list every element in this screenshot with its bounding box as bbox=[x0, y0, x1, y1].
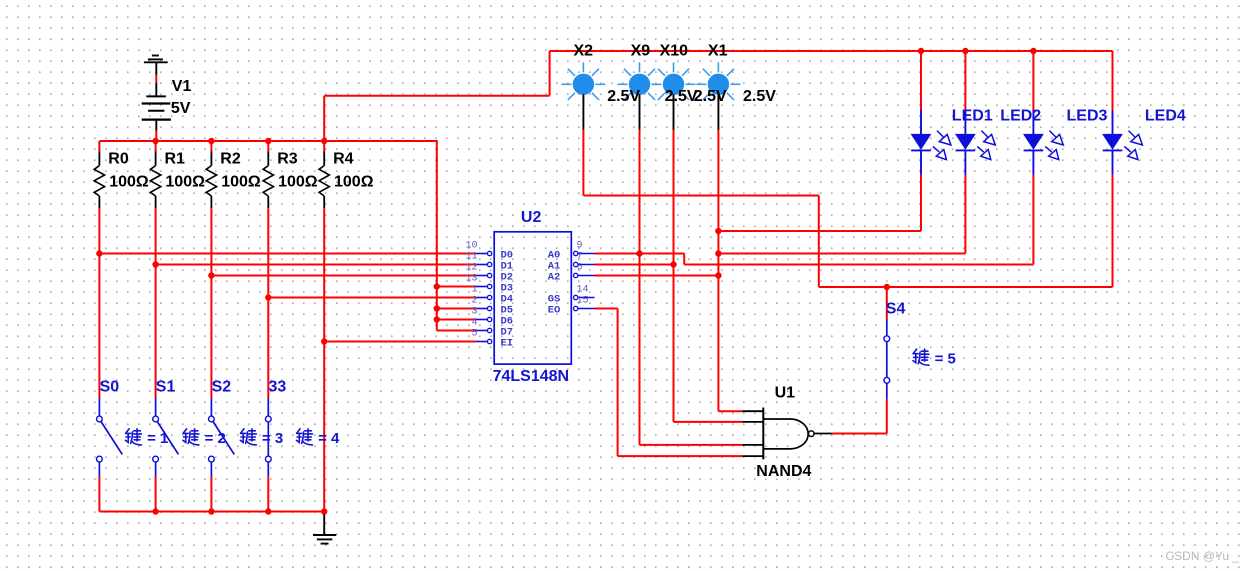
NAND gate U1 NAND4 bbox=[742, 408, 831, 460]
svg-text:NAND4: NAND4 bbox=[756, 463, 811, 480]
wire: A0 output row with jog to LED3 bbox=[595, 175, 1034, 265]
LED2 bbox=[955, 110, 995, 175]
resistor R3 100 ohm bbox=[263, 151, 318, 209]
resistor R2 100 ohm bbox=[206, 151, 261, 209]
resistor R0 100 ohm bbox=[94, 151, 149, 209]
svg-text:15: 15 bbox=[577, 295, 589, 306]
svg-text:X2: X2 bbox=[574, 43, 594, 60]
svg-text:= 5: = 5 bbox=[935, 350, 956, 367]
junction dots on top rail bbox=[918, 48, 1037, 54]
svg-text:A2: A2 bbox=[548, 271, 561, 283]
wire: lamp X1 down to NAND input 1 bbox=[718, 130, 742, 412]
svg-text:1: 1 bbox=[471, 284, 477, 295]
svg-text:R4: R4 bbox=[333, 151, 354, 168]
switch S2 bbox=[209, 398, 235, 477]
svg-text:100Ω: 100Ω bbox=[165, 173, 205, 190]
svg-text:14: 14 bbox=[577, 284, 589, 295]
svg-text:74LS148N: 74LS148N bbox=[493, 368, 569, 385]
junction dots on ground rail bbox=[152, 508, 327, 514]
svg-text:100Ω: 100Ω bbox=[334, 173, 374, 190]
svg-text:100Ω: 100Ω bbox=[109, 173, 149, 190]
switch S1 bbox=[153, 398, 179, 477]
junction dots on +5V rail bbox=[152, 138, 440, 323]
label key = 3 bbox=[240, 429, 283, 447]
svg-text:S0: S0 bbox=[100, 379, 120, 396]
wire: bottom ground rail bbox=[99, 511, 324, 513]
svg-text:S2: S2 bbox=[212, 379, 232, 396]
wire: X1 branch to LED2 bbox=[718, 175, 965, 254]
wire: lamp X2 to LED4 net with S4 tap bbox=[583, 130, 1112, 288]
svg-text:U1: U1 bbox=[775, 385, 796, 402]
svg-text:6: 6 bbox=[577, 262, 583, 273]
svg-text:13: 13 bbox=[465, 273, 477, 284]
svg-text:2: 2 bbox=[471, 295, 477, 306]
svg-text:100Ω: 100Ω bbox=[278, 173, 318, 190]
svg-text:11: 11 bbox=[465, 251, 477, 262]
junction dots on input rows bbox=[96, 250, 327, 344]
svg-text:R1: R1 bbox=[165, 151, 186, 168]
svg-text:LED3: LED3 bbox=[1067, 108, 1108, 125]
label key = 4 bbox=[296, 429, 340, 447]
svg-text:5V: 5V bbox=[171, 100, 191, 117]
wire: top rail to LED anodes bbox=[550, 51, 1113, 110]
svg-text:LED1: LED1 bbox=[952, 108, 993, 125]
svg-text:3: 3 bbox=[471, 306, 477, 317]
svg-text:X1: X1 bbox=[708, 43, 728, 60]
lamp X1 2.5V bbox=[696, 62, 740, 129]
wire: NAND output to S4 bbox=[832, 287, 887, 434]
svg-text:EO: EO bbox=[548, 304, 561, 316]
wire: A2 output row to X1 bbox=[595, 275, 719, 277]
svg-text:X10: X10 bbox=[660, 43, 689, 60]
chip right pins A0-A2, GS, EO bbox=[574, 251, 595, 310]
ground (bottom, at R4 column) bbox=[313, 514, 336, 544]
svg-text:= 2: = 2 bbox=[205, 430, 226, 447]
wire: lamp X9 down to NAND input 3 bbox=[640, 130, 743, 445]
svg-text:7: 7 bbox=[577, 251, 583, 262]
lamp X2 2.5V bbox=[561, 62, 605, 129]
LED1 bbox=[911, 110, 951, 175]
svg-text:V1: V1 bbox=[172, 78, 192, 95]
svg-text:LED2: LED2 bbox=[1000, 108, 1041, 125]
svg-text:= 4: = 4 bbox=[318, 430, 340, 447]
svg-text:2.5V: 2.5V bbox=[607, 88, 640, 105]
LED3 bbox=[1023, 110, 1063, 175]
svg-text:10: 10 bbox=[465, 240, 477, 251]
svg-text:2.5V: 2.5V bbox=[694, 88, 727, 105]
svg-text:R0: R0 bbox=[108, 151, 129, 168]
label key = 1 bbox=[125, 429, 168, 447]
svg-text:9: 9 bbox=[577, 240, 583, 251]
chip left pins D0-D7, EI bbox=[476, 251, 492, 343]
switch S4 bbox=[884, 319, 890, 399]
lamp X9 2.5V bbox=[618, 62, 662, 129]
svg-text:R2: R2 bbox=[220, 151, 241, 168]
switch S0 bbox=[97, 398, 123, 477]
LED4 bbox=[1102, 110, 1142, 175]
label key = 5 bbox=[913, 349, 956, 367]
svg-text:33: 33 bbox=[269, 379, 287, 396]
svg-text:S4: S4 bbox=[886, 301, 906, 318]
resistor R4 100 ohm bbox=[319, 151, 374, 209]
wire: LED drops from top rail bbox=[921, 51, 1033, 110]
svg-text:100Ω: 100Ω bbox=[221, 173, 261, 190]
svg-text:R3: R3 bbox=[277, 151, 298, 168]
svg-text:S1: S1 bbox=[156, 379, 176, 396]
svg-text:X9: X9 bbox=[631, 43, 651, 60]
wire: +5V rail from battery to resistors and D3/D5/D6/D7 feeder bbox=[99, 140, 476, 331]
wire: lamp X10 down to NAND input 2 bbox=[674, 130, 743, 422]
svg-text:12: 12 bbox=[465, 262, 477, 273]
wire: A1 output row to X10 bbox=[595, 264, 674, 266]
wire: resistor columns to switches, D0-D2/D4 rows, EI row bbox=[99, 141, 476, 512]
svg-text:EI: EI bbox=[501, 337, 514, 349]
ground (above battery V1) bbox=[144, 56, 168, 63]
svg-text:4: 4 bbox=[471, 317, 477, 328]
lamp X10 2.5V bbox=[652, 62, 696, 129]
svg-text:2.5V: 2.5V bbox=[743, 88, 776, 105]
svg-text:5: 5 bbox=[471, 328, 477, 339]
resistor R1 100 ohm bbox=[150, 151, 205, 209]
wire: X1 branch to LED1 bbox=[718, 175, 921, 231]
battery V1 5V bbox=[142, 62, 192, 141]
svg-text:= 3: = 3 bbox=[262, 430, 283, 447]
svg-text:= 1: = 1 bbox=[147, 430, 168, 447]
op-amp U2 74LS148N body bbox=[494, 232, 571, 364]
svg-text:U2: U2 bbox=[521, 209, 542, 226]
wire: EO to NAND input 4 bbox=[595, 309, 743, 457]
svg-text:CSDN @Yu _: CSDN @Yu _ bbox=[1166, 549, 1240, 563]
junction dots on output rows bbox=[636, 228, 890, 290]
svg-text:LED4: LED4 bbox=[1145, 108, 1186, 125]
switch 33 bbox=[265, 398, 271, 477]
label key = 2 bbox=[183, 429, 226, 447]
wire: R4 top link to top rail bbox=[324, 51, 549, 141]
